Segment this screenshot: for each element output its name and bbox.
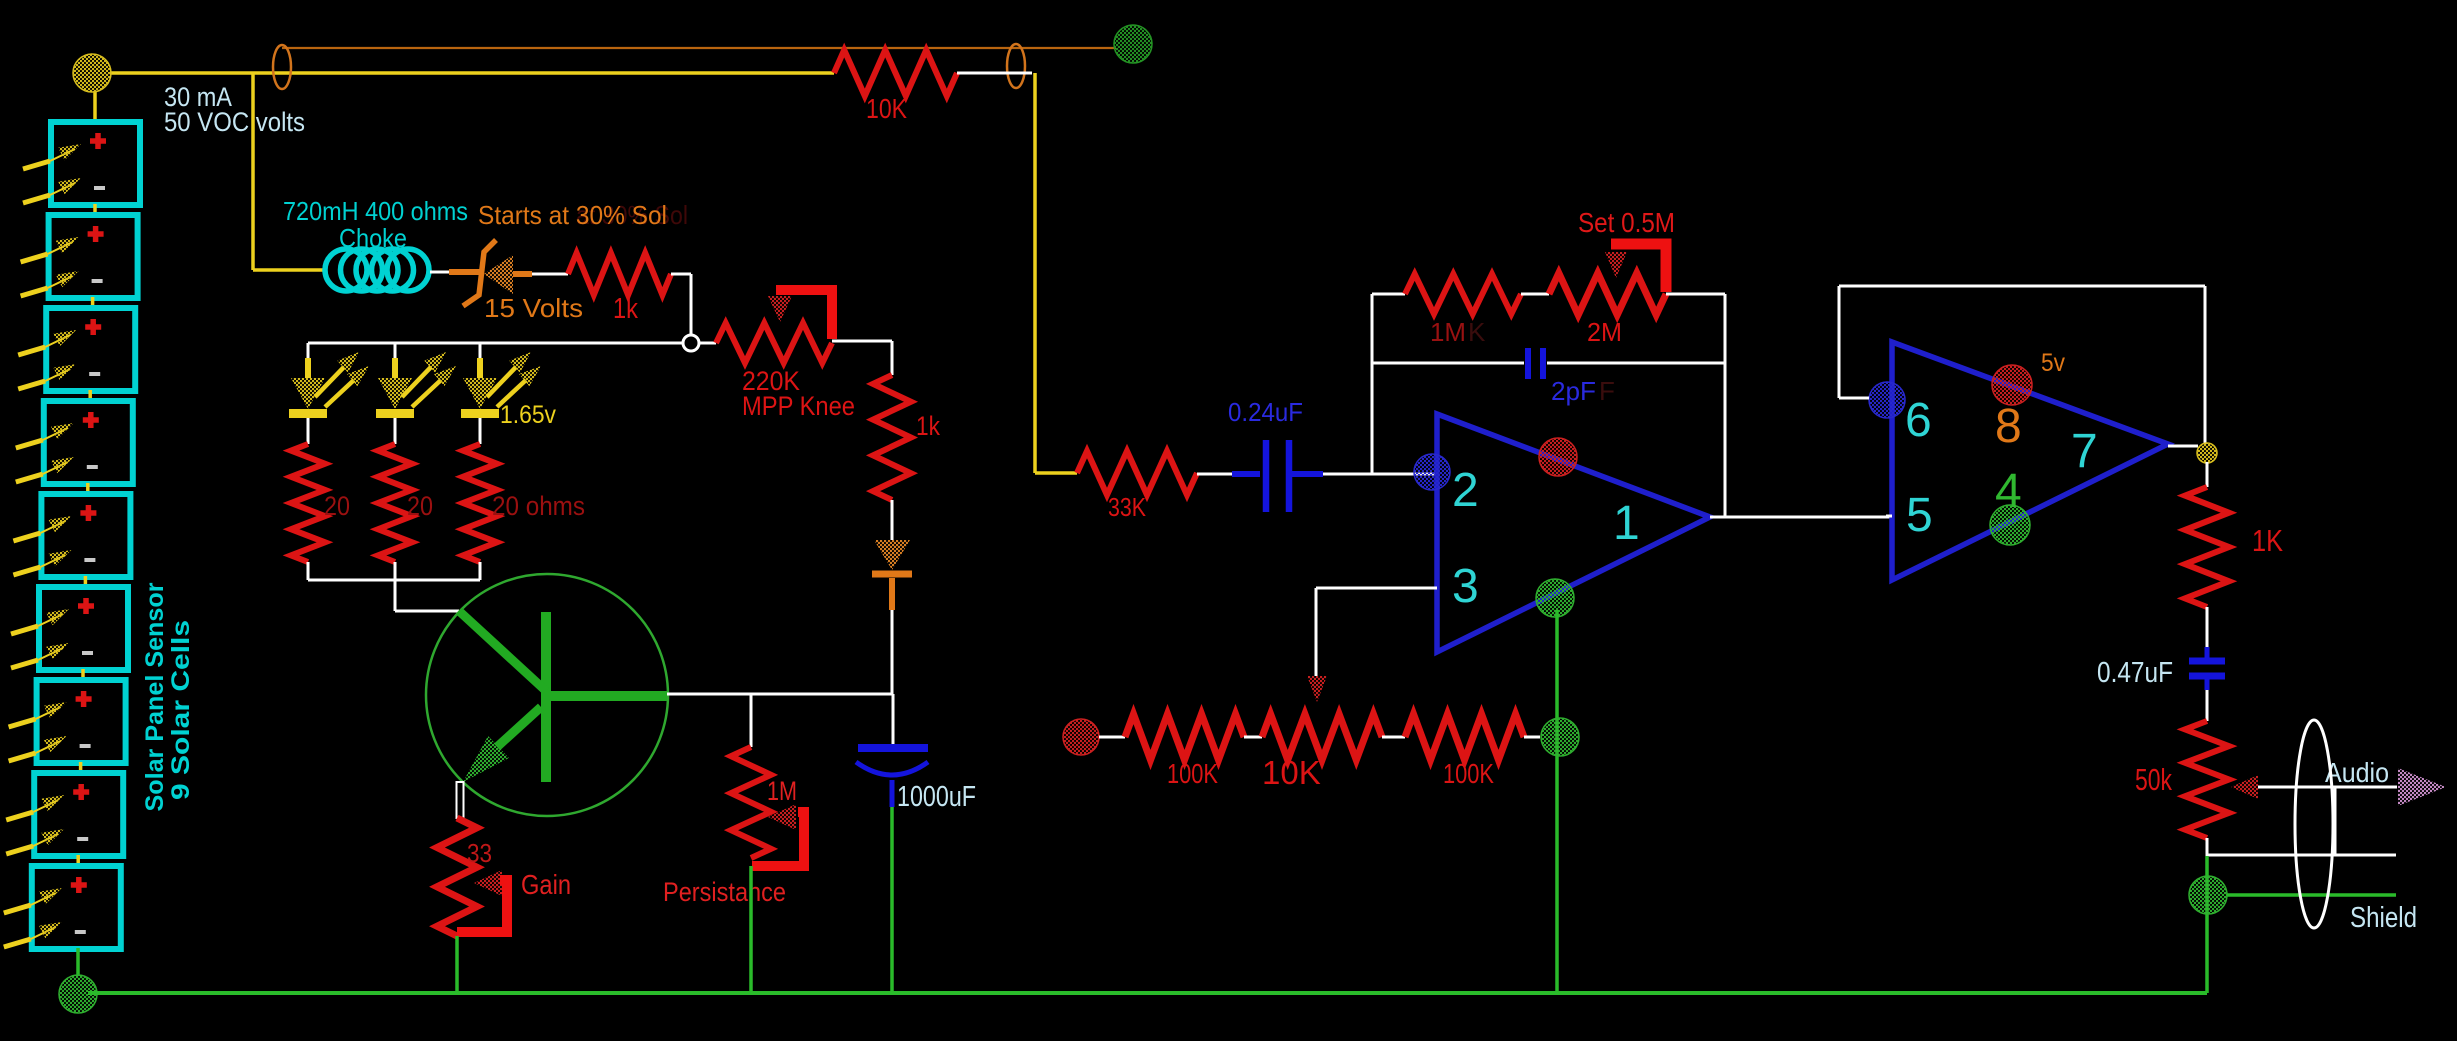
svg-text:Audio: Audio	[2325, 757, 2389, 788]
svg-text:Gain: Gain	[521, 869, 571, 900]
svg-text:5: 5	[1906, 489, 1933, 542]
svg-text:Set 0.5M: Set 0.5M	[1578, 207, 1675, 238]
svg-text:1000uF: 1000uF	[897, 781, 976, 813]
svg-text:2pF: 2pF	[1551, 376, 1596, 406]
svg-text:1M: 1M	[1430, 317, 1466, 347]
svg-text:33K: 33K	[1108, 492, 1147, 522]
svg-text:F: F	[1599, 376, 1615, 406]
svg-text:3: 3	[1452, 560, 1479, 613]
svg-text:0.24uF: 0.24uF	[1228, 397, 1303, 427]
svg-text:0.47uF: 0.47uF	[2097, 657, 2173, 689]
svg-text:33: 33	[467, 838, 492, 868]
svg-text:Starts at 30% Sol: Starts at 30% Sol	[478, 200, 667, 230]
svg-text:20: 20	[407, 491, 433, 521]
svg-text:9 Solar Cells: 9 Solar Cells	[167, 620, 195, 800]
svg-text:4: 4	[1995, 465, 2022, 518]
svg-text:1: 1	[1613, 497, 1640, 550]
svg-text:6: 6	[1905, 394, 1932, 447]
svg-text:Solar Panel Sensor: Solar Panel Sensor	[141, 582, 169, 811]
svg-text:1.65v: 1.65v	[500, 401, 556, 429]
svg-text:100K: 100K	[1443, 758, 1494, 789]
svg-text:50k: 50k	[2135, 762, 2172, 797]
svg-text:Choke: Choke	[339, 223, 407, 253]
svg-text:720mH 400 ohms: 720mH 400 ohms	[283, 196, 468, 226]
svg-text:7: 7	[2071, 425, 2098, 478]
svg-text:1k: 1k	[613, 293, 638, 325]
svg-text:Persistance: Persistance	[663, 877, 786, 907]
svg-text:Shield: Shield	[2350, 902, 2417, 934]
svg-text:1k: 1k	[916, 411, 940, 441]
svg-text:5v: 5v	[2041, 349, 2065, 377]
svg-text:15 Volts: 15 Volts	[484, 293, 583, 323]
svg-text:2: 2	[1452, 464, 1479, 517]
svg-text:100K: 100K	[1167, 758, 1218, 789]
svg-text:20 ohms: 20 ohms	[492, 491, 585, 521]
svg-text:10K: 10K	[866, 93, 907, 124]
svg-text:8: 8	[1995, 400, 2022, 453]
svg-text:2M: 2M	[1587, 317, 1622, 347]
svg-text:10K: 10K	[1262, 754, 1321, 791]
svg-text:20: 20	[324, 491, 350, 521]
svg-text:1M: 1M	[767, 776, 797, 806]
svg-text:K: K	[1468, 317, 1486, 347]
svg-text:MPP Knee: MPP Knee	[742, 391, 855, 421]
svg-text:50 VOC volts: 50 VOC volts	[164, 107, 305, 137]
svg-text:1K: 1K	[2252, 523, 2283, 558]
